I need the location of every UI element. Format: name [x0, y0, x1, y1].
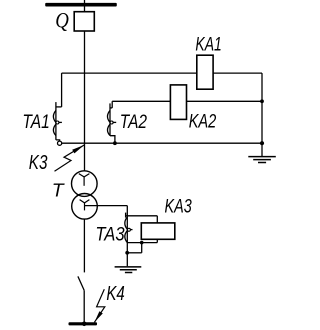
svg-text:TA2: TA2: [120, 112, 148, 133]
svg-text:T: T: [52, 181, 66, 201]
svg-text:K4: K4: [106, 283, 124, 305]
svg-text:TA3: TA3: [95, 225, 125, 246]
svg-text:KA2: KA2: [189, 111, 217, 132]
svg-text:K3: K3: [29, 152, 48, 174]
svg-text:TA1: TA1: [22, 112, 49, 133]
svg-text:KA1: KA1: [195, 34, 221, 55]
svg-text:KA3: KA3: [165, 197, 193, 218]
svg-text:Q: Q: [55, 8, 69, 33]
